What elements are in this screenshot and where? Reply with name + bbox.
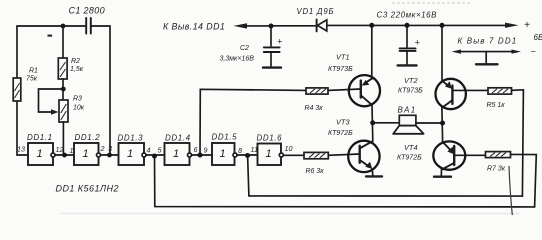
gate DD1.1 bbox=[17, 133, 64, 165]
node: junction dot to upper feedback bbox=[245, 153, 250, 158]
svg-text:DD1.6: DD1.6 bbox=[257, 134, 283, 143]
wire: VT3 emitter stub bbox=[371, 169, 374, 175]
svg-text:DD1.5: DD1.5 bbox=[212, 133, 238, 142]
svg-text:R6 3к: R6 3к bbox=[306, 168, 325, 175]
node: junction dot C3 bbox=[405, 23, 410, 28]
svg-text:КТ972Б: КТ972Б bbox=[328, 130, 353, 137]
node: junction dot VT1 bbox=[369, 23, 374, 28]
svg-text:DD1 К561ЛН2: DD1 К561ЛН2 bbox=[56, 184, 119, 194]
wire: DD1.3 out to DD1.4 in bbox=[146, 154, 165, 156]
label К Выв.14 DD1 with arrow bbox=[163, 22, 271, 32]
svg-text:12: 12 bbox=[56, 145, 64, 154]
wire: VT2/VT4 collector column bbox=[441, 108, 444, 141]
resistor R7 bbox=[486, 152, 511, 173]
wire: speaker right lead bbox=[416, 122, 443, 124]
transistor VT2 bbox=[398, 76, 466, 109]
svg-text:R7 3к: R7 3к bbox=[487, 166, 506, 173]
node: junction dot R3/gate wire bbox=[62, 153, 67, 158]
svg-text:+: + bbox=[277, 37, 282, 47]
gate DD1.4 bbox=[158, 134, 198, 166]
node: junction dot speaker left bbox=[370, 120, 375, 125]
svg-text:10к: 10к bbox=[73, 105, 85, 112]
wire: VT1 emitter to rail bbox=[371, 25, 373, 79]
wire: VT2 base to R5 bbox=[452, 89, 488, 91]
svg-text:1: 1 bbox=[37, 148, 43, 160]
wire: upper feedback run bbox=[248, 156, 523, 197]
ground bar VT4 emitter bbox=[434, 175, 451, 177]
node: junction dot speaker right bbox=[440, 121, 445, 126]
svg-text:11: 11 bbox=[251, 145, 258, 154]
svg-text:6: 6 bbox=[194, 145, 198, 154]
svg-text:1: 1 bbox=[70, 146, 74, 155]
wire: VT2 emitter to rail bbox=[441, 25, 443, 81]
svg-text:4: 4 bbox=[147, 146, 151, 155]
svg-text:VD1 Д9Б: VD1 Д9Б bbox=[297, 7, 335, 16]
svg-text:VT4: VT4 bbox=[404, 143, 418, 152]
gate DD1.3 bbox=[108, 134, 151, 166]
wire: VT4 emitter stub bbox=[440, 170, 442, 176]
label К Выв 7 DD1 with double arrow and common bar bbox=[452, 37, 536, 65]
transistor VT4 bbox=[397, 141, 465, 169]
svg-text:DD1.2: DD1.2 bbox=[75, 133, 101, 142]
svg-text:С3 220мк×16В: С3 220мк×16В bbox=[377, 11, 438, 20]
wire: R3 down to gate row bbox=[62, 122, 64, 155]
svg-text:К Выв.14 DD1: К Выв.14 DD1 bbox=[163, 22, 225, 32]
svg-text:6В: 6В bbox=[534, 33, 542, 42]
capacitor C2 bbox=[220, 26, 283, 68]
label DD1 type bbox=[56, 184, 119, 194]
wire: top rail right bbox=[327, 24, 506, 26]
svg-text:1: 1 bbox=[266, 148, 272, 160]
svg-text:1: 1 bbox=[83, 148, 89, 160]
node: junction dot C2 bbox=[269, 24, 274, 29]
capacitor C1 bbox=[69, 6, 105, 34]
scan smudge bottom bbox=[60, 213, 520, 215]
wire: DD1.2 out to DD1.3 in bbox=[101, 154, 119, 156]
ground bar VT3 emitter bbox=[366, 175, 382, 177]
wire: C2 node to diode bbox=[271, 25, 316, 27]
svg-text:3: 3 bbox=[108, 144, 112, 153]
svg-text:VT2: VT2 bbox=[404, 76, 418, 85]
scan streak top right bbox=[392, 2, 470, 4]
node: junction dot top of R2 bbox=[61, 24, 66, 29]
power arrow +6V bbox=[505, 20, 542, 42]
wire: R2 to R3 bbox=[62, 79, 64, 100]
transistor VT3 bbox=[328, 118, 380, 173]
wire: top-left rail bbox=[17, 25, 85, 27]
node: junction dot to lower feedback bbox=[152, 154, 157, 159]
wire: R7 to lower feedback bbox=[511, 154, 537, 207]
svg-text:1: 1 bbox=[173, 148, 179, 160]
svg-text:VT3: VT3 bbox=[336, 118, 350, 127]
svg-text:КТ972Б: КТ972Б bbox=[397, 155, 422, 162]
wire: left vertical branch bbox=[17, 26, 28, 155]
wire: lower feedback run bbox=[155, 156, 535, 207]
wire: VT1/VT3 collector column bbox=[371, 105, 374, 142]
wire: DD1.5 out to DD1.6 in bbox=[237, 154, 258, 156]
svg-text:DD1.3: DD1.3 bbox=[118, 134, 144, 143]
svg-text:2: 2 bbox=[100, 144, 105, 153]
wire: VT4 base to R7 bbox=[455, 154, 486, 156]
svg-text:+: + bbox=[415, 38, 420, 48]
resistor R3 (potentiometer) bbox=[59, 96, 85, 123]
svg-text:3,3мк×16В: 3,3мк×16В bbox=[220, 56, 255, 63]
svg-text:С1 2800: С1 2800 bbox=[69, 6, 105, 16]
svg-text:75к: 75к bbox=[26, 76, 38, 83]
svg-text:R2: R2 bbox=[71, 58, 80, 65]
svg-text:VT1: VT1 bbox=[336, 53, 350, 62]
svg-text:+: + bbox=[524, 20, 530, 31]
wire: DD1.4 out to DD1.5 in bbox=[192, 154, 213, 156]
resistor R4 bbox=[305, 88, 329, 112]
minus polarity mark bbox=[48, 35, 53, 37]
gate DD1.2 bbox=[70, 133, 105, 165]
svg-text:8: 8 bbox=[238, 146, 242, 155]
gate DD1.6 bbox=[251, 134, 293, 166]
diode VD1 bbox=[297, 7, 335, 31]
node: junction dot to R4 line bbox=[198, 153, 203, 158]
resistor R1 bbox=[13, 68, 38, 102]
resistor R6 bbox=[304, 152, 328, 175]
svg-text:ВА1: ВА1 bbox=[398, 106, 417, 115]
svg-text:13: 13 bbox=[17, 145, 25, 154]
svg-text:R1: R1 bbox=[29, 68, 38, 75]
node: R2-R3 junction dot bbox=[61, 87, 66, 92]
svg-text:R3: R3 bbox=[73, 96, 82, 103]
svg-text:DD1.4: DD1.4 bbox=[165, 134, 191, 143]
wire: R4 line from DD1.4/5 node bbox=[200, 89, 306, 155]
node: junction dot VT2 bbox=[440, 23, 445, 28]
resistor R2 bbox=[58, 58, 83, 79]
wire: stray curve near R7 bbox=[509, 166, 512, 215]
wire: R4 to VT1 base bbox=[328, 89, 361, 90]
svg-text:КТ973Б: КТ973Б bbox=[328, 66, 353, 73]
svg-text:10: 10 bbox=[285, 144, 293, 153]
svg-text:С2: С2 bbox=[240, 45, 249, 52]
svg-text:9: 9 bbox=[204, 146, 208, 155]
transistor VT1 bbox=[328, 53, 380, 107]
svg-text:1,5к: 1,5к bbox=[70, 66, 84, 73]
svg-text:R4 3к: R4 3к bbox=[305, 105, 324, 112]
svg-text:DD1.1: DD1.1 bbox=[27, 133, 53, 142]
capacitor C3 bbox=[377, 11, 438, 66]
wire: C1 to down corner bbox=[91, 26, 110, 155]
wire: R5 to upper feedback bbox=[512, 90, 524, 196]
resistor R5 bbox=[487, 88, 512, 109]
wire: speaker left lead bbox=[373, 122, 400, 124]
svg-text:К Выв 7 DD1: К Выв 7 DD1 bbox=[458, 37, 518, 46]
speaker BA1 bbox=[393, 106, 423, 134]
svg-text:1: 1 bbox=[127, 148, 133, 160]
wire: DD1.6 out to R6 bbox=[283, 154, 304, 156]
gate DD1.5 bbox=[204, 133, 243, 166]
wire: R6 to VT3 base bbox=[328, 154, 359, 155]
node: junction dot C1 feedback bbox=[107, 153, 112, 158]
wire: R2 branch vertical bbox=[62, 26, 64, 58]
svg-text:1: 1 bbox=[220, 148, 226, 160]
wire: DD1.1 out to DD1.2 in bbox=[55, 154, 74, 156]
svg-text:R5 1к: R5 1к bbox=[487, 102, 506, 109]
svg-text:КТ973Б: КТ973Б bbox=[398, 88, 423, 95]
svg-text:−: − bbox=[531, 47, 536, 57]
wire: potentiometer wiper loop bbox=[39, 89, 64, 115]
